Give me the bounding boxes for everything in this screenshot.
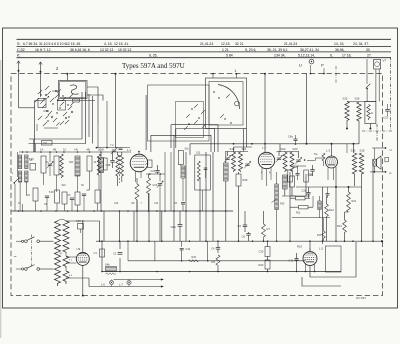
svg-text:S:: S:: [17, 42, 20, 46]
resistor R8: [147, 174, 151, 211]
capacitor C1: [94, 249, 105, 257]
mixer tube U2: [258, 146, 274, 187]
svg-text:5, 23 6,: 5, 23 6,: [245, 48, 256, 52]
svg-text:MC.893: MC.893: [356, 296, 366, 300]
svg-text:17 18,: 17 18,: [342, 54, 351, 58]
svg-text:R28: R28: [243, 178, 248, 182]
wire avc top: [290, 167, 362, 244]
antenna terminal 1: [17, 61, 20, 72]
svg-text:S16: S16: [360, 149, 365, 153]
svg-text:Types 597A and 597U: Types 597A and 597U: [122, 62, 185, 70]
speaker: [373, 156, 381, 169]
tone branch C49: [155, 241, 209, 262]
svg-text:R13: R13: [337, 224, 342, 228]
wire avc mid: [290, 186, 350, 207]
svg-text:6, 26,: 6, 26,: [149, 54, 158, 58]
svg-text:4B: 4B: [87, 148, 90, 152]
capacitor C28: [326, 187, 330, 198]
svg-text:L.3: L.3: [326, 149, 330, 153]
parts table rules: [17, 39, 392, 57]
capacitor C05: [308, 165, 315, 177]
wire filter drops: [346, 122, 371, 145]
svg-text:21,41,24: 21,41,24: [200, 42, 213, 46]
nested shield lines left: [29, 92, 93, 152]
svg-text:R13: R13: [317, 234, 322, 237]
svg-text:1 21: 1 21: [222, 48, 229, 52]
svg-text:12 15, 41.: 12 15, 41.: [114, 42, 129, 46]
svg-text:K:: K:: [17, 54, 20, 58]
resistor wirewound left of U1: [99, 152, 104, 211]
if1 coil S21: [239, 152, 243, 172]
coil S25: [345, 102, 349, 122]
parts table row C: [17, 48, 370, 52]
wire out sec: [355, 175, 362, 186]
wire fuse drop: [366, 59, 368, 84]
svg-text:5.08: 5.08: [49, 192, 54, 194]
svg-text:C49: C49: [185, 247, 190, 251]
resistor box R28b: [178, 148, 189, 212]
svg-text:C:32: C:32: [17, 48, 25, 52]
svg-text:27.: 27.: [367, 54, 372, 58]
speaker terminals: [370, 147, 392, 175]
if1 top wires: [225, 147, 252, 156]
capacitor C6: [242, 232, 251, 241]
capacitor C26: [302, 187, 311, 198]
wire lamp feed A: [114, 279, 164, 281]
svg-text:34 34,: 34 34,: [276, 54, 285, 58]
if2 trimmer A: [277, 157, 281, 159]
svg-text:C23: C23: [384, 116, 389, 120]
capacitor C4: [211, 241, 220, 253]
svg-text:C15: C15: [151, 170, 156, 173]
coil unit tag: [42, 141, 53, 146]
wire mid verticals: [102, 135, 373, 272]
svg-text:R20: R20: [259, 263, 264, 267]
svg-text:R21: R21: [352, 199, 357, 203]
svg-text:R7: R7: [267, 227, 271, 231]
svg-text:C30: C30: [259, 250, 264, 254]
svg-text:30: 30: [366, 48, 370, 52]
coil E: [97, 154, 107, 190]
resistor R12: [325, 196, 335, 241]
svg-text:S20: S20: [69, 162, 74, 164]
wire gram line: [127, 240, 305, 260]
svg-text:C1b: C1b: [154, 203, 159, 205]
capacitor C5: [238, 218, 248, 232]
wire bus C: [96, 240, 382, 242]
switch box S: [59, 73, 88, 99]
svg-text:S13: S13: [196, 152, 201, 155]
wire antenna drops: [19, 71, 50, 152]
svg-text:VT: VT: [383, 59, 387, 63]
gang box: [206, 78, 247, 129]
node 1: [212, 69, 237, 78]
big switch rect: [148, 85, 210, 141]
power transformer secondary: [63, 221, 69, 284]
resistor R13: [337, 212, 349, 241]
if2 coil S23: [290, 152, 294, 172]
svg-text:1: 1: [235, 69, 237, 73]
resistor R5: [212, 255, 221, 272]
svg-text:U: U: [299, 63, 302, 68]
capacitor C15: [151, 165, 160, 174]
gang dial arc: [218, 85, 240, 110]
grid stopper Tre: [304, 152, 325, 166]
wire det bottom: [297, 242, 357, 286]
out transformer S15: [352, 153, 356, 175]
trimmer C4a: [47, 152, 53, 176]
coil box B: [54, 154, 63, 192]
svg-text:U: U: [390, 148, 392, 152]
wire ct ground: [82, 265, 84, 296]
svg-text:7.2: 7.2: [110, 144, 114, 147]
gang contacts: [184, 91, 232, 130]
resistor R11: [290, 206, 313, 215]
bus B labels: [114, 203, 178, 205]
svg-text:S25: S25: [343, 97, 348, 101]
resistor S4b: [105, 263, 117, 275]
mains terminals: [16, 240, 24, 270]
svg-text:~: ~: [14, 255, 17, 261]
svg-text:S22: S22: [281, 147, 286, 151]
ant coil S1: [18, 155, 21, 211]
if2 trimmer B: [296, 159, 300, 161]
wire lamp feed B: [66, 278, 164, 288]
osc can: [195, 152, 211, 212]
if2 top wires: [277, 152, 300, 159]
parts table row K: [17, 54, 372, 58]
svg-text:S19: S19: [62, 185, 67, 187]
svg-text:13 32 13: 13 32 13: [100, 48, 113, 52]
svg-text:16 H.T. 12: 16 H.T. 12: [35, 48, 51, 52]
nested shield lines right: [146, 95, 218, 152]
svg-text:4B: 4B: [53, 148, 56, 152]
svg-text:6,: 6,: [330, 54, 333, 58]
capacitor C48: [106, 152, 115, 168]
svg-text:R30: R30: [280, 203, 285, 206]
chassis dashed outline: [11, 74, 383, 296]
resistor wirewound: [224, 152, 229, 211]
osc link verticals: [96, 101, 130, 152]
svg-text:R4h: R4h: [192, 256, 197, 259]
wire dash-dot links: [362, 57, 392, 142]
svg-text:C41: C41: [289, 259, 294, 263]
svg-text:P: P: [321, 63, 324, 68]
capacitor C41: [289, 253, 299, 265]
svg-text:R: R: [371, 112, 373, 115]
resistor box D: [87, 156, 92, 190]
rect tube U9: [76, 247, 89, 265]
svg-text:C2: C2: [113, 252, 117, 256]
switch box feeds: [57, 87, 103, 125]
capacitor C8A: [171, 211, 183, 241]
volume pot R30: [272, 172, 286, 242]
fuse VT: [374, 59, 387, 70]
svg-text:C4b: C4b: [114, 203, 119, 205]
svg-text:1A: 1A: [40, 148, 43, 152]
wire coil feed: [307, 74, 376, 145]
svg-text:36,96,: 36,96,: [335, 48, 344, 52]
svg-text:L-6: L-6: [101, 283, 105, 287]
switch contacts field: [35, 86, 74, 131]
power transformer primary: [55, 219, 67, 286]
antenna terminal 2: [39, 62, 42, 73]
coupling cluster R9: [288, 166, 313, 182]
capacitor C23: [384, 104, 390, 120]
pickup contact: [12, 152, 19, 211]
svg-text:S15: S15: [351, 149, 356, 153]
left row 2 parts: [23, 188, 101, 211]
svg-text:L.2: L.2: [262, 146, 266, 150]
svg-text:24, 34, 37.: 24, 34, 37.: [353, 42, 369, 46]
resistor R21: [347, 187, 357, 212]
svg-text:5,12,13,14,: 5,12,13,14,: [298, 54, 315, 58]
capacitor C8a top: [288, 135, 298, 145]
svg-text:36,27,41, 34: 36,27,41, 34: [300, 48, 319, 52]
svg-text:C16: C16: [153, 184, 158, 187]
dial lamp L6: [101, 280, 114, 287]
wire mains to transformer: [40, 241, 54, 269]
svg-text:12 15, 45.: 12 15, 45.: [66, 42, 81, 46]
dial lamp L7: [119, 280, 131, 287]
coil row labels: [40, 148, 101, 152]
capacitor C30 box: [259, 241, 271, 257]
svg-text:35, 21, 39 6,1: 35, 21, 39 6,1: [267, 48, 288, 52]
svg-text:S23: S23: [293, 147, 298, 151]
wire c15 col: [165, 152, 171, 211]
capacitor C2: [113, 252, 122, 256]
wire bus B: [12, 210, 234, 212]
svg-text:12,15.: 12,15.: [221, 42, 230, 46]
svg-text:Tre: Tre: [314, 152, 318, 156]
svg-text:L.5: L.5: [319, 247, 323, 251]
filter box: [365, 102, 376, 124]
svg-text:21,41,24: 21,41,24: [284, 42, 297, 46]
svg-text:S4b: S4b: [105, 263, 110, 267]
svg-text:R12: R12: [329, 208, 334, 212]
switch small box: [38, 99, 46, 108]
wirewound C: [75, 156, 80, 192]
coil S26: [357, 102, 361, 122]
svg-text:4, 15,: 4, 15,: [104, 42, 113, 46]
svg-text:6,7 65 34. 31,10 5 4 6 5 10 6: 6,7 65 34. 31,10 5 4 6 5 10 6: [23, 42, 66, 46]
svg-text:C6: C6: [242, 235, 246, 239]
resistor R13b: [317, 218, 325, 242]
wire avc lower: [292, 217, 330, 219]
capacitor C60: [76, 219, 84, 233]
mains switch: [25, 235, 40, 271]
grid parts cluster: [108, 144, 131, 154]
gang feed verticals: [244, 129, 247, 152]
svg-text:14, 15,: 14, 15,: [334, 42, 344, 46]
if1 trimmer B: [245, 163, 249, 165]
svg-text:S1b: S1b: [185, 148, 190, 151]
wire anode bus: [190, 143, 359, 155]
wire ht secondary: [66, 220, 100, 252]
det tube U5: [303, 247, 323, 272]
resistor R28: [236, 172, 248, 211]
resistor bar R99: [318, 196, 321, 218]
resistor R20: [259, 257, 271, 272]
svg-text:C48: C48: [106, 163, 111, 167]
svg-text:R11: R11: [296, 211, 301, 215]
pilot lamp: [309, 59, 314, 64]
rf tube U1: [127, 148, 165, 182]
svg-text:C1: C1: [94, 251, 98, 255]
pilot stubs: [310, 65, 336, 84]
wire heater taps: [66, 257, 76, 263]
winding labels: [60, 253, 73, 277]
wire fuse verticals: [366, 69, 379, 101]
svg-text:C8a: C8a: [171, 225, 177, 229]
det box: [326, 246, 342, 272]
resistor R10: [290, 197, 310, 200]
svg-text:U9: U9: [77, 247, 81, 251]
svg-text:L-7: L-7: [119, 283, 123, 287]
svg-text:5 84: 5 84: [226, 54, 233, 58]
resistor box A: [41, 156, 46, 185]
wire osc drop: [264, 73, 266, 152]
svg-text:P: P: [390, 172, 392, 176]
svg-text:S19: S19: [230, 147, 235, 151]
if1 coil S19: [232, 152, 236, 172]
svg-text:H6: H6: [75, 148, 79, 152]
resistor R6: [135, 178, 139, 211]
if2 lower parts: [282, 175, 310, 196]
shield dashed: [119, 155, 121, 183]
osc coils: [116, 152, 124, 186]
svg-text:1A: 1A: [30, 159, 33, 162]
coil row value labels: [18, 159, 97, 205]
if2 coil S22: [283, 152, 287, 172]
ant coil S2: [25, 155, 36, 196]
svg-text:C8a: C8a: [288, 135, 293, 139]
wire coil bus: [19, 151, 108, 153]
svg-text:C4: C4: [211, 247, 215, 251]
wire bus D: [101, 271, 341, 273]
op tube U3: [326, 144, 338, 180]
svg-text:32 21: 32 21: [235, 42, 244, 46]
out transformer S16: [359, 153, 363, 175]
parts table row S: [17, 42, 369, 46]
svg-text:R19: R19: [297, 245, 302, 249]
svg-text:15 32 13: 15 32 13: [118, 48, 131, 52]
svg-text:C5: C5: [238, 224, 242, 228]
svg-text:C26: C26: [302, 189, 307, 193]
svg-text:S26: S26: [355, 97, 360, 101]
wire band drop: [115, 73, 117, 148]
svg-text:L.1: L.1: [127, 148, 131, 152]
trimmer C16: [153, 174, 164, 211]
resistor R7: [262, 211, 271, 241]
svg-text:S21: S21: [242, 147, 247, 151]
if1 trimmer A: [225, 157, 229, 159]
junction chassis right: [381, 240, 383, 242]
svg-text:36 6,16 16, 6: 36 6,16 16, 6: [70, 48, 90, 52]
